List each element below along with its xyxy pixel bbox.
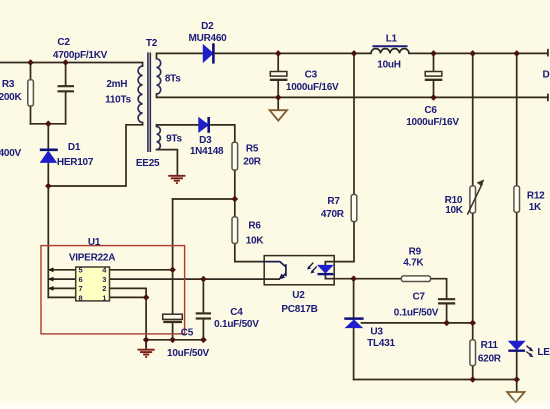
transformer T2 core xyxy=(148,52,150,152)
resistor R6 10K xyxy=(232,217,238,244)
wire D3 cathode to R5 top xyxy=(209,125,235,142)
svg-text:4.7K: 4.7K xyxy=(403,258,424,269)
junction node C5 bottom xyxy=(169,337,176,344)
svg-text:2mH: 2mH xyxy=(106,79,127,90)
junction node R3 top xyxy=(27,59,34,66)
wire C3 bottom stem xyxy=(277,81,279,98)
diode D3 1N4148 xyxy=(199,117,209,133)
wire LED cathode down xyxy=(516,351,518,380)
wire C4 bottom stem xyxy=(202,319,204,340)
junction node C2 top xyxy=(62,59,69,66)
wire pin6 xyxy=(48,278,75,280)
svg-text:C7: C7 xyxy=(412,291,425,302)
svg-text:U2: U2 xyxy=(292,290,305,301)
resistor R12 1K xyxy=(514,186,520,212)
svg-text:10uF/50V: 10uF/50V xyxy=(167,348,209,359)
svg-text:9Ts: 9Ts xyxy=(166,134,182,145)
transformer T2 secondary winding 8Ts xyxy=(157,59,161,94)
wire C5 bottom stem xyxy=(172,322,174,340)
wire R11 bottom stem xyxy=(472,366,474,380)
junction node C3 top rail xyxy=(275,50,282,57)
wire snubber node down to D1 cathode xyxy=(47,124,49,149)
LED light arrows xyxy=(527,346,532,356)
wire secondary top rail xyxy=(157,53,204,58)
svg-text:10uH: 10uH xyxy=(377,60,400,71)
svg-text:620R: 620R xyxy=(478,353,502,364)
U2 phototransistor emitter arrow xyxy=(279,274,286,280)
svg-text:6: 6 xyxy=(79,275,83,284)
svg-text:8Ts: 8Ts xyxy=(165,73,181,84)
svg-text:VIPER22A: VIPER22A xyxy=(69,253,115,264)
IC U1 VIPER22A body xyxy=(76,267,110,301)
svg-text:8: 8 xyxy=(79,293,83,302)
junction node C3 return rail xyxy=(275,94,282,101)
svg-text:R7: R7 xyxy=(327,196,340,207)
U3 TL431 cathode bar xyxy=(344,317,363,320)
junction node pin1 pin2 xyxy=(143,294,150,301)
svg-text:1000uF/16V: 1000uF/16V xyxy=(286,82,339,93)
wire C2 top stem xyxy=(65,63,67,86)
optocoupler U2 PC817B box xyxy=(264,256,334,285)
svg-text:C2: C2 xyxy=(57,37,70,48)
LED cathode bar xyxy=(508,350,525,352)
junction node R7 top rail xyxy=(351,50,358,57)
wire R5 bottom to node xyxy=(234,170,236,199)
svg-text:C4: C4 xyxy=(230,307,243,318)
wire R7 bottom to opto LED anode xyxy=(334,222,354,262)
junction node D1 anode / primary xyxy=(45,183,52,190)
svg-text:C6: C6 xyxy=(424,105,437,116)
wire R3/C2 bottom link xyxy=(31,123,66,125)
wire C7 bottom stem xyxy=(446,304,448,323)
junction node pin4 vdd xyxy=(169,267,176,274)
svg-text:R5: R5 xyxy=(246,144,259,155)
svg-text:200K: 200K xyxy=(0,92,22,103)
svg-text:0.1uF/50V: 0.1uF/50V xyxy=(214,319,259,330)
transformer T2 primary winding 2mH 110Ts xyxy=(138,66,143,123)
wire pin4 to vdd node xyxy=(110,269,173,271)
wire rail D2 to C3 node then L1 xyxy=(213,52,371,54)
wire D1 anode down to node xyxy=(47,162,49,186)
svg-text:R9: R9 xyxy=(409,247,422,258)
wire R12 top from rail xyxy=(516,53,518,186)
junction node C4 bottom xyxy=(200,337,207,344)
svg-text:EE25: EE25 xyxy=(136,158,160,169)
capacitor C3 1000uF/16V polarized xyxy=(270,72,288,80)
svg-text:10K: 10K xyxy=(445,205,464,216)
capacitor C6 1000uF/16V polarized xyxy=(425,72,443,80)
svg-text:1N4148: 1N4148 xyxy=(190,146,224,157)
IC U1 VIPER22A red boundary box xyxy=(41,246,185,334)
svg-text:4700pF/1KV: 4700pF/1KV xyxy=(53,50,108,61)
wire rail L1 right to end tick xyxy=(409,52,548,54)
wire R6 bottom to opto collector xyxy=(235,243,264,261)
wire 9Ts top to D3 xyxy=(157,125,199,127)
wire TL431 anode down to bottom rail xyxy=(353,328,355,380)
svg-text:TL431: TL431 xyxy=(367,338,395,349)
junction node R12 top rail xyxy=(513,50,520,57)
wire C6 top stem xyxy=(433,53,435,71)
wire vdd vertical from R5/R6 node down to C5 xyxy=(172,199,174,314)
svg-text:R12: R12 xyxy=(527,190,545,201)
svg-text:LED: LED xyxy=(537,347,550,358)
diode D2 MUR460 xyxy=(203,43,213,63)
junction node source ground xyxy=(143,337,150,344)
svg-text:D3: D3 xyxy=(199,135,212,146)
svg-text:10K: 10K xyxy=(246,236,265,247)
terminal tick top right xyxy=(547,50,549,56)
resistor R3 200K xyxy=(28,80,34,106)
svg-text:D2: D2 xyxy=(201,21,214,32)
wire R5R6 node to vdd vertical xyxy=(173,198,235,200)
svg-text:7: 7 xyxy=(79,284,83,293)
svg-text:3: 3 xyxy=(102,275,106,284)
U2 LED cathode bar xyxy=(318,273,334,275)
ground bars below VIPER source node xyxy=(138,340,155,357)
wire pin3 feedback to opto emitter xyxy=(110,278,280,280)
svg-text:2: 2 xyxy=(102,284,106,293)
svg-text:T2: T2 xyxy=(146,38,158,49)
wire C4 top stem xyxy=(202,279,204,313)
svg-text:R6: R6 xyxy=(248,221,261,232)
LED indicator diode xyxy=(509,341,525,350)
junction node C7 ref xyxy=(443,320,450,327)
ground earth below C3 xyxy=(270,110,287,120)
wire ground stem below C3 xyxy=(277,97,279,109)
U2 light arrow heads xyxy=(307,266,311,270)
wire input rail to transformer primary top xyxy=(0,63,143,67)
junction node C4 top feedback xyxy=(200,276,207,283)
wire pin7 xyxy=(48,287,75,289)
wire R11 top stem xyxy=(472,323,474,340)
wire pin1 xyxy=(110,296,147,298)
svg-text:C5: C5 xyxy=(181,328,194,339)
svg-text:MUR460: MUR460 xyxy=(189,33,228,44)
svg-text:1K: 1K xyxy=(529,202,542,213)
junction node LED bottom rail xyxy=(513,376,520,383)
wire VIPER left bus xyxy=(47,186,49,297)
wire drain node down to ground node xyxy=(145,297,147,339)
wire R3 top stem xyxy=(30,63,32,80)
capacitor C5 10uF/50V polarized xyxy=(163,314,183,322)
wire bottom output-minus link xyxy=(354,379,517,381)
svg-text:PC817B: PC817B xyxy=(281,304,317,315)
capacitor C2 4700pF/1KV xyxy=(58,86,75,91)
capacitor C4 0.1uF/50V xyxy=(196,313,211,318)
wire R7 from top rail down xyxy=(353,53,355,194)
transformer T2 secondary winding 9Ts xyxy=(157,127,161,150)
shunt regulator U3 TL431 triangle xyxy=(346,320,363,328)
svg-text:470R: 470R xyxy=(321,209,345,220)
svg-text:20R: 20R xyxy=(243,157,262,168)
svg-text:R3: R3 xyxy=(2,79,15,90)
wire ground stem below LED xyxy=(516,380,518,392)
svg-text:1: 1 xyxy=(102,293,106,302)
svg-text:5: 5 xyxy=(79,266,83,275)
junction node R5 R6 vdd xyxy=(232,196,239,203)
wire TL431 ref to C7/R10 node xyxy=(362,322,473,324)
potentiometer R10 10K xyxy=(467,179,484,214)
svg-text:R11: R11 xyxy=(481,340,499,351)
wire opto anode inside xyxy=(325,262,334,266)
junction node C6 top rail xyxy=(430,50,437,57)
svg-text:C3: C3 xyxy=(305,70,318,81)
wire C3 top stem xyxy=(277,53,279,71)
svg-text:U3: U3 xyxy=(370,327,383,338)
svg-text:D: D xyxy=(543,70,550,81)
U2 LED triangle xyxy=(318,265,333,273)
inductor L1 10uH xyxy=(371,49,409,54)
wire C2 bottom stem xyxy=(65,92,67,124)
terminal tick lower right xyxy=(547,95,549,101)
wire R3 bottom stem xyxy=(30,106,32,124)
wire TL431 cathode up to opto node xyxy=(353,279,355,319)
capacitor C7 0.1uF/50V xyxy=(438,299,455,303)
svg-text:+400V: +400V xyxy=(0,148,22,159)
U1 pin6 wire arrow xyxy=(48,277,54,282)
wire 9Ts bottom to ground xyxy=(157,150,178,175)
svg-text:U1: U1 xyxy=(88,237,101,248)
wire R10 top from rail xyxy=(472,53,474,186)
wire R9 right to C7 xyxy=(431,279,447,299)
junction node R10 R11 ref xyxy=(469,320,476,327)
resistor R11 620R xyxy=(470,340,476,366)
junction node C6 return rail xyxy=(430,94,437,101)
svg-text:0.1uF/50V: 0.1uF/50V xyxy=(394,308,439,319)
U1 pin7 wire arrow xyxy=(48,286,54,291)
wire node to R6 top xyxy=(234,199,236,217)
svg-text:D1: D1 xyxy=(68,142,81,153)
junction node R11 bottom rail xyxy=(469,376,476,383)
junction node snubber bottom xyxy=(45,121,52,128)
svg-text:HER107: HER107 xyxy=(57,157,94,168)
resistor R7 470R xyxy=(351,195,357,222)
svg-text:L1: L1 xyxy=(386,34,398,45)
ground earth below LED xyxy=(507,392,524,402)
wire pin8 xyxy=(48,296,75,298)
ground bars below 9Ts return xyxy=(168,176,185,183)
wire bottom ground link C5 C4 xyxy=(146,339,205,341)
wire pin2 over to drain drop xyxy=(110,288,147,297)
wire opto cathode to R9 xyxy=(325,274,401,279)
wire R10 bottom to node xyxy=(472,213,474,323)
U2 light arrow a xyxy=(308,263,317,273)
wire R12 bottom to LED xyxy=(516,212,518,341)
diode D1 HER107 xyxy=(40,150,58,163)
junction node opto cathode TL431 xyxy=(350,275,357,282)
inductor L1 top bar xyxy=(373,45,408,47)
U2 phototransistor xyxy=(264,262,286,279)
wire secondary return rail xyxy=(157,94,548,97)
wire C6 bottom stem xyxy=(433,81,435,98)
junction node R10 top rail xyxy=(469,50,476,57)
U1 pin5 wire arrow xyxy=(48,267,54,272)
resistor R5 20R xyxy=(232,142,238,170)
svg-text:1000uF/16V: 1000uF/16V xyxy=(406,117,459,128)
wire pin5 xyxy=(48,269,75,271)
svg-text:110Ts: 110Ts xyxy=(105,95,131,106)
resistor R9 4.7K horizontal xyxy=(401,276,430,282)
wire D1 node to primary bottom xyxy=(48,123,142,186)
